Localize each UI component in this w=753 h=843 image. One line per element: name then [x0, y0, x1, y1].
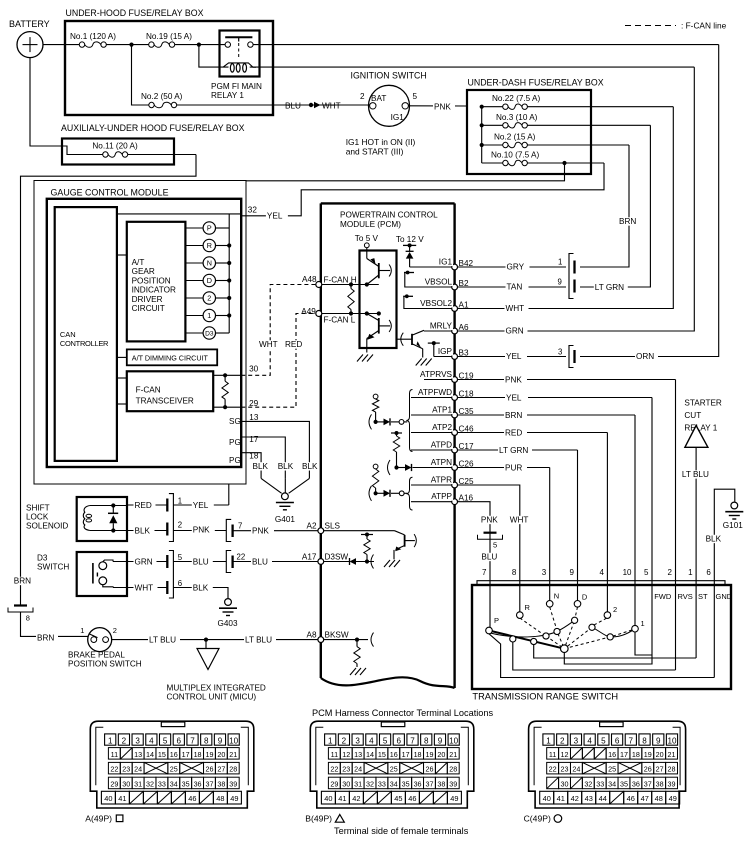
svg-text:12: 12	[342, 750, 350, 759]
svg-text:31: 31	[134, 779, 142, 788]
svg-text:30: 30	[122, 779, 130, 788]
svg-text:BATTERY: BATTERY	[9, 19, 50, 29]
svg-text:17: 17	[182, 750, 190, 759]
svg-text:5: 5	[178, 553, 183, 562]
svg-text:YEL: YEL	[193, 501, 209, 510]
svg-text:GND: GND	[716, 592, 733, 601]
svg-text:BKSW: BKSW	[325, 630, 349, 639]
svg-text:A8: A8	[306, 630, 316, 639]
svg-text:32: 32	[248, 206, 258, 215]
svg-text:11: 11	[549, 750, 556, 759]
svg-text:23: 23	[342, 765, 350, 774]
svg-text:WHT: WHT	[510, 516, 529, 525]
svg-text:44: 44	[599, 794, 607, 803]
svg-text:42: 42	[352, 794, 360, 803]
svg-text:26: 26	[425, 765, 433, 774]
svg-text:48: 48	[655, 794, 663, 803]
svg-text:MODULE (PCM): MODULE (PCM)	[340, 220, 401, 229]
svg-text:WHT: WHT	[322, 102, 341, 111]
svg-text:33: 33	[378, 779, 386, 788]
svg-text:G403: G403	[218, 619, 238, 628]
svg-text:No.11 (20 A): No.11 (20 A)	[92, 142, 138, 151]
svg-text:SLS: SLS	[325, 522, 341, 531]
svg-text:9: 9	[656, 737, 661, 746]
svg-text:No.19 (15 A): No.19 (15 A)	[146, 32, 192, 41]
svg-text:N: N	[207, 259, 212, 268]
svg-text:B2: B2	[459, 279, 469, 288]
svg-text:23: 23	[122, 765, 130, 774]
svg-text:10: 10	[229, 737, 239, 746]
svg-text:GEAR: GEAR	[132, 267, 155, 276]
svg-text:No.22 (7.5 A): No.22 (7.5 A)	[492, 94, 541, 103]
svg-text:37: 37	[425, 779, 433, 788]
svg-text:28: 28	[449, 765, 457, 774]
svg-text:BRN: BRN	[14, 577, 31, 586]
svg-text:POSITION SWITCH: POSITION SWITCH	[68, 660, 142, 669]
svg-text:IG1 HOT in ON (II): IG1 HOT in ON (II)	[346, 137, 416, 147]
svg-text:ATP2: ATP2	[432, 423, 452, 432]
svg-text:41: 41	[557, 794, 565, 803]
svg-text:39: 39	[449, 779, 457, 788]
svg-text:27: 27	[217, 765, 225, 774]
svg-text:8: 8	[204, 737, 209, 746]
svg-text:13: 13	[249, 413, 259, 422]
svg-text:MULTIPLEX INTEGRATED: MULTIPLEX INTEGRATED	[167, 684, 266, 693]
svg-text:23: 23	[561, 765, 569, 774]
svg-text:FWD: FWD	[654, 592, 672, 601]
svg-text:25: 25	[608, 765, 616, 774]
svg-text:B3: B3	[459, 348, 469, 357]
svg-text:1: 1	[108, 737, 113, 746]
svg-text:P: P	[494, 616, 499, 625]
svg-text:YEL: YEL	[267, 211, 283, 220]
svg-text:No.2 (15 A): No.2 (15 A)	[494, 133, 536, 142]
svg-text:1: 1	[80, 626, 84, 635]
svg-text:5: 5	[601, 737, 606, 746]
svg-text:N: N	[554, 592, 559, 601]
svg-text:46: 46	[627, 794, 635, 803]
svg-text:10: 10	[449, 737, 459, 746]
svg-text:3: 3	[135, 737, 140, 746]
svg-text:26: 26	[205, 765, 213, 774]
svg-text:1: 1	[178, 497, 182, 506]
svg-text:9: 9	[218, 737, 223, 746]
svg-text:To 12 V: To 12 V	[396, 235, 424, 244]
svg-text:PNK: PNK	[481, 516, 498, 525]
svg-text:42: 42	[571, 794, 579, 803]
svg-text:8: 8	[26, 614, 30, 623]
svg-text:P: P	[207, 224, 212, 233]
svg-text:9: 9	[438, 737, 443, 746]
svg-text:GAUGE CONTROL MODULE: GAUGE CONTROL MODULE	[51, 188, 169, 198]
svg-text:24: 24	[572, 765, 580, 774]
svg-text:BRAKE PEDAL: BRAKE PEDAL	[68, 651, 125, 660]
svg-text:20: 20	[437, 750, 445, 759]
svg-text:CONTROL UNIT (MICU): CONTROL UNIT (MICU)	[167, 693, 257, 702]
svg-text:BLK: BLK	[706, 535, 722, 544]
svg-text:D3: D3	[37, 554, 48, 563]
svg-text:4: 4	[587, 737, 592, 746]
svg-text:38: 38	[437, 779, 445, 788]
svg-text:POWERTRAIN CONTROL: POWERTRAIN CONTROL	[340, 211, 438, 220]
svg-text:17: 17	[402, 750, 410, 759]
svg-text:GRN: GRN	[135, 558, 153, 567]
svg-text:R: R	[207, 241, 212, 250]
svg-text:PNK: PNK	[505, 375, 522, 384]
svg-text:ATPP: ATPP	[431, 492, 452, 501]
svg-text:9: 9	[558, 278, 562, 287]
svg-text:VBSOL: VBSOL	[425, 277, 453, 286]
svg-text:11: 11	[111, 750, 118, 759]
svg-text:3: 3	[355, 737, 360, 746]
svg-text:RELAY 1: RELAY 1	[211, 91, 244, 100]
svg-text:9: 9	[570, 568, 575, 577]
svg-text:RED: RED	[135, 501, 152, 510]
svg-text:19: 19	[644, 750, 652, 759]
svg-text:POSITION: POSITION	[132, 276, 171, 285]
svg-text:4: 4	[149, 737, 154, 746]
svg-text:22: 22	[237, 553, 246, 562]
svg-text:37: 37	[644, 779, 652, 788]
svg-text:SHIFT: SHIFT	[26, 504, 50, 513]
svg-text:2: 2	[668, 568, 673, 577]
svg-text:26: 26	[644, 765, 652, 774]
svg-text:1: 1	[546, 737, 551, 746]
svg-text:37: 37	[205, 779, 213, 788]
svg-text:RELAY 1: RELAY 1	[684, 424, 717, 433]
svg-text:No.2 (50 A): No.2 (50 A)	[141, 92, 183, 101]
svg-text:BRN: BRN	[505, 411, 522, 420]
svg-text:6: 6	[706, 568, 711, 577]
svg-text:22: 22	[110, 765, 118, 774]
svg-text:36: 36	[194, 779, 202, 788]
svg-text:PNK: PNK	[434, 102, 451, 111]
svg-text:A/T: A/T	[132, 258, 145, 267]
svg-text:BLU: BLU	[285, 102, 301, 111]
svg-text:41: 41	[338, 794, 346, 803]
svg-text:BLU: BLU	[252, 558, 268, 567]
svg-text:6: 6	[178, 579, 182, 588]
svg-text:A1: A1	[459, 300, 469, 309]
svg-text:5: 5	[644, 568, 649, 577]
svg-text:3: 3	[574, 737, 579, 746]
svg-text:A(49P): A(49P)	[85, 814, 112, 824]
svg-text:LT BLU: LT BLU	[149, 636, 176, 645]
svg-text:32: 32	[366, 779, 374, 788]
svg-text:D: D	[582, 593, 588, 602]
svg-text:5: 5	[413, 92, 418, 101]
svg-text:Terminal side of female termin: Terminal side of female terminals	[334, 826, 469, 836]
svg-text:TAN: TAN	[507, 282, 523, 291]
svg-text:7: 7	[238, 522, 242, 531]
svg-text:48: 48	[216, 794, 224, 803]
svg-text:LT BLU: LT BLU	[682, 470, 709, 479]
svg-text:BLK: BLK	[278, 462, 294, 471]
svg-text:46: 46	[408, 794, 416, 803]
svg-text:LT BLU: LT BLU	[245, 636, 272, 645]
svg-text:49: 49	[230, 794, 238, 803]
svg-text:C35: C35	[459, 407, 474, 416]
svg-text:45: 45	[394, 794, 402, 803]
svg-text:INDICATOR: INDICATOR	[132, 286, 176, 295]
svg-text:R: R	[525, 603, 531, 612]
svg-text:36: 36	[414, 779, 422, 788]
svg-text:RVS: RVS	[678, 592, 693, 601]
svg-text:B42: B42	[459, 259, 474, 268]
svg-text:5: 5	[163, 737, 168, 746]
svg-text:20: 20	[656, 750, 664, 759]
svg-text:YEL: YEL	[506, 352, 522, 361]
svg-text:C18: C18	[459, 389, 474, 398]
svg-text:C19: C19	[459, 371, 474, 380]
svg-text:7: 7	[629, 737, 634, 746]
svg-text:10: 10	[667, 737, 677, 746]
svg-text:24: 24	[354, 765, 362, 774]
svg-text:3: 3	[558, 348, 562, 357]
svg-text:C26: C26	[459, 459, 474, 468]
svg-text:39: 39	[668, 779, 676, 788]
svg-text:41: 41	[118, 794, 126, 803]
svg-text:PUR: PUR	[505, 463, 522, 472]
svg-text:16: 16	[170, 750, 178, 759]
svg-text:TRANSCEIVER: TRANSCEIVER	[136, 397, 194, 406]
svg-text:2: 2	[560, 737, 565, 746]
svg-text:ATPRVS: ATPRVS	[420, 370, 453, 379]
svg-text:22: 22	[549, 765, 557, 774]
svg-text:13: 13	[354, 750, 362, 759]
svg-text:6: 6	[397, 737, 402, 746]
svg-text:35: 35	[182, 779, 190, 788]
svg-text:47: 47	[641, 794, 649, 803]
svg-text:ATPN: ATPN	[431, 458, 452, 467]
svg-text:ATPD: ATPD	[431, 440, 452, 449]
svg-text:15: 15	[378, 750, 386, 759]
svg-text:15: 15	[158, 750, 166, 759]
svg-text:1: 1	[207, 311, 211, 320]
svg-text:29: 29	[330, 779, 338, 788]
svg-text:A6: A6	[459, 323, 469, 332]
svg-text:2: 2	[122, 737, 127, 746]
svg-text:17: 17	[249, 435, 259, 444]
svg-text:34: 34	[170, 779, 178, 788]
svg-text:ORN: ORN	[636, 352, 654, 361]
svg-text:20: 20	[217, 750, 225, 759]
svg-text:BLU: BLU	[193, 558, 209, 567]
svg-text:30: 30	[249, 365, 259, 374]
svg-text:and START (III): and START (III)	[346, 147, 404, 157]
svg-text:40: 40	[104, 794, 112, 803]
svg-text:1: 1	[328, 737, 333, 746]
svg-text:1: 1	[641, 619, 645, 628]
svg-text:UNDER-DASH FUSE/RELAY BOX: UNDER-DASH FUSE/RELAY BOX	[468, 78, 604, 88]
svg-text:ATPFWD: ATPFWD	[418, 388, 452, 397]
svg-text:LT GRN: LT GRN	[595, 283, 624, 292]
svg-text:3: 3	[542, 568, 547, 577]
svg-text:25: 25	[170, 765, 178, 774]
svg-text:UNDER-HOOD FUSE/RELAY BOX: UNDER-HOOD FUSE/RELAY BOX	[66, 8, 204, 18]
svg-text:40: 40	[324, 794, 332, 803]
svg-text:STARTER: STARTER	[684, 399, 722, 408]
svg-text:PNK: PNK	[193, 525, 210, 534]
svg-text:PGM FI MAIN: PGM FI MAIN	[211, 82, 262, 91]
svg-text:24: 24	[134, 765, 142, 774]
svg-text:C(49P): C(49P)	[524, 814, 551, 824]
svg-text:30: 30	[561, 779, 569, 788]
svg-text:18: 18	[632, 750, 640, 759]
svg-text:2: 2	[613, 605, 617, 614]
svg-text:No.1 (120 A): No.1 (120 A)	[70, 32, 116, 41]
svg-text:7: 7	[190, 737, 195, 746]
svg-text:WHT: WHT	[506, 304, 525, 313]
svg-text:1: 1	[558, 258, 562, 267]
svg-text:39: 39	[229, 779, 237, 788]
svg-text:BLK: BLK	[193, 584, 209, 593]
svg-text:21: 21	[449, 750, 457, 759]
svg-text:27: 27	[656, 765, 664, 774]
svg-text:19: 19	[425, 750, 433, 759]
svg-text:2: 2	[113, 626, 117, 635]
svg-text:VBSOL2: VBSOL2	[420, 299, 452, 308]
svg-text:SG: SG	[229, 417, 241, 426]
svg-text:C25: C25	[459, 477, 474, 486]
svg-text:7: 7	[482, 568, 487, 577]
svg-text:30: 30	[342, 779, 350, 788]
svg-text:RED: RED	[505, 428, 522, 437]
svg-text:2: 2	[342, 737, 347, 746]
svg-text:IG1: IG1	[391, 113, 405, 122]
svg-text:D: D	[207, 276, 212, 285]
svg-text:25: 25	[390, 765, 398, 774]
svg-text:29: 29	[110, 779, 118, 788]
svg-text:33: 33	[596, 779, 604, 788]
svg-text:35: 35	[620, 779, 628, 788]
svg-text:SWITCH: SWITCH	[37, 563, 69, 572]
svg-text:49: 49	[669, 794, 677, 803]
svg-text:34: 34	[608, 779, 616, 788]
svg-text:LOCK: LOCK	[26, 513, 49, 522]
svg-text:A49: A49	[301, 307, 316, 316]
svg-text:49: 49	[450, 794, 458, 803]
svg-text:PG: PG	[229, 456, 241, 465]
svg-text:G101: G101	[723, 521, 743, 530]
svg-text:CONTROLLER: CONTROLLER	[60, 339, 109, 348]
svg-text:4: 4	[369, 737, 374, 746]
svg-text:22: 22	[330, 765, 338, 774]
svg-text:28: 28	[229, 765, 237, 774]
svg-text:46: 46	[188, 794, 196, 803]
svg-text:A17: A17	[302, 552, 317, 561]
svg-text:CIRCUIT: CIRCUIT	[132, 304, 165, 313]
svg-text:F-CAN L: F-CAN L	[324, 316, 356, 325]
svg-text:16: 16	[608, 750, 616, 759]
svg-text:G401: G401	[275, 515, 295, 524]
svg-text:32: 32	[584, 779, 592, 788]
svg-text:BLU: BLU	[481, 553, 497, 562]
svg-text:2: 2	[178, 521, 182, 530]
svg-text:16: 16	[390, 750, 398, 759]
svg-text:B(49P): B(49P)	[305, 814, 332, 824]
svg-text:34: 34	[390, 779, 398, 788]
svg-text:No.10 (7.5 A): No.10 (7.5 A)	[491, 151, 540, 160]
svg-text:LT GRN: LT GRN	[499, 446, 528, 455]
svg-text:RED: RED	[285, 340, 302, 349]
svg-text:No.3 (10 A): No.3 (10 A)	[496, 113, 538, 122]
svg-text:GRN: GRN	[506, 326, 524, 335]
svg-text:A/T DIMMING CIRCUIT: A/T DIMMING CIRCUIT	[132, 353, 209, 362]
svg-text:ATPR: ATPR	[431, 475, 452, 484]
svg-text:32: 32	[146, 779, 154, 788]
svg-text:6: 6	[177, 737, 182, 746]
svg-text:7: 7	[410, 737, 415, 746]
svg-text:2: 2	[360, 92, 365, 101]
svg-text:5: 5	[383, 737, 388, 746]
svg-text:F-CAN: F-CAN	[136, 386, 161, 395]
svg-text:35: 35	[402, 779, 410, 788]
svg-text:38: 38	[217, 779, 225, 788]
svg-text:1: 1	[688, 568, 693, 577]
svg-text:AUXILIALY-UNDER HOOD FUSE/RELA: AUXILIALY-UNDER HOOD FUSE/RELAY BOX	[61, 123, 245, 133]
svg-text:10: 10	[623, 568, 632, 577]
svg-text:21: 21	[668, 750, 676, 759]
svg-text:IGNITION SWITCH: IGNITION SWITCH	[351, 71, 427, 81]
svg-text:43: 43	[585, 794, 593, 803]
svg-text:MRLY: MRLY	[430, 321, 453, 330]
svg-text:12: 12	[561, 750, 569, 759]
svg-text:33: 33	[158, 779, 166, 788]
svg-text:A48: A48	[302, 275, 317, 284]
svg-text:8: 8	[512, 568, 517, 577]
svg-text:C17: C17	[459, 442, 474, 451]
svg-text:CUT: CUT	[684, 411, 701, 420]
svg-text:DRIVER: DRIVER	[132, 295, 163, 304]
svg-text:14: 14	[366, 750, 374, 759]
svg-text:28: 28	[668, 765, 676, 774]
svg-text:BLK: BLK	[253, 462, 269, 471]
svg-text:18: 18	[414, 750, 422, 759]
svg-text:BLK: BLK	[135, 527, 151, 536]
svg-text:2: 2	[207, 294, 211, 303]
svg-text:5: 5	[493, 541, 497, 550]
svg-text:GRY: GRY	[507, 262, 525, 271]
svg-text:: F-CAN line: : F-CAN line	[681, 21, 727, 31]
svg-text:PNK: PNK	[252, 527, 269, 536]
svg-text:8: 8	[642, 737, 647, 746]
svg-text:SOLENOID: SOLENOID	[26, 522, 68, 531]
svg-text:PG: PG	[229, 438, 241, 447]
svg-text:ATP1: ATP1	[432, 405, 452, 414]
svg-text:14: 14	[146, 750, 154, 759]
svg-text:13: 13	[134, 750, 142, 759]
svg-text:17: 17	[620, 750, 628, 759]
svg-text:IGP: IGP	[438, 347, 453, 356]
svg-text:A2: A2	[306, 522, 316, 531]
svg-text:11: 11	[331, 750, 338, 759]
svg-text:8: 8	[424, 737, 429, 746]
svg-text:18: 18	[194, 750, 202, 759]
svg-text:A16: A16	[459, 494, 474, 503]
svg-text:CAN: CAN	[60, 330, 76, 339]
svg-text:ST: ST	[698, 592, 708, 601]
svg-text:38: 38	[656, 779, 664, 788]
svg-text:TRANSMISSION RANGE SWITCH: TRANSMISSION RANGE SWITCH	[472, 692, 618, 702]
svg-text:31: 31	[354, 779, 362, 788]
svg-text:To 5 V: To 5 V	[355, 234, 379, 243]
svg-text:BAT: BAT	[371, 94, 386, 103]
svg-text:WHT: WHT	[259, 340, 278, 349]
svg-text:YEL: YEL	[506, 393, 522, 402]
svg-text:19: 19	[205, 750, 213, 759]
svg-text:BRN: BRN	[37, 634, 54, 643]
